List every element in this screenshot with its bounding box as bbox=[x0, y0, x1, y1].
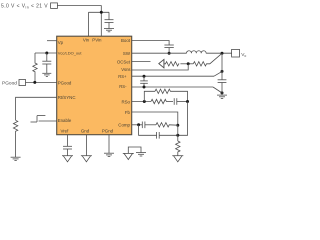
svg-text:Enable: Enable bbox=[58, 118, 72, 123]
Vo label bbox=[241, 52, 246, 58]
svg-text:Gnd: Gnd bbox=[81, 129, 90, 134]
node PGood junction bbox=[33, 81, 36, 84]
wire RS+ diagonal bbox=[214, 72, 221, 76]
node Vo junction bbox=[221, 52, 224, 55]
node Vcc junction bbox=[45, 52, 48, 55]
svg-text:Vcc/LDO_out: Vcc/LDO_out bbox=[58, 51, 83, 56]
wire Boot bbox=[132, 41, 169, 46]
ground PGnd bbox=[104, 152, 114, 154]
op-amp U1 regulator IC body bbox=[57, 36, 132, 135]
ground Fb arrow bbox=[172, 155, 183, 157]
wire L to Vo bbox=[206, 52, 232, 54]
node RSo junction bbox=[143, 100, 146, 103]
svg-text:PGood: PGood bbox=[58, 80, 72, 85]
wire Fb node down bbox=[177, 125, 179, 141]
node RS- junction bbox=[143, 86, 146, 89]
wire comp to node bbox=[169, 124, 178, 126]
capacitor Boot bbox=[164, 44, 173, 46]
resistor Rt bbox=[13, 120, 17, 157]
svg-text:SW: SW bbox=[123, 51, 131, 56]
ground Vref arrow bbox=[62, 155, 73, 157]
ground tie arrow bbox=[123, 152, 134, 154]
input terminal bbox=[51, 3, 58, 8]
PGood external label bbox=[2, 80, 17, 86]
switch Enable bbox=[31, 121, 38, 123]
wire to series cap bbox=[166, 101, 173, 103]
wire Vin pin bbox=[88, 12, 90, 36]
node rail RS+ bbox=[221, 70, 224, 73]
wire Vsns bbox=[132, 64, 189, 70]
wire diagonal to Vo node bbox=[206, 54, 221, 64]
svg-text:Vref: Vref bbox=[60, 129, 69, 134]
node rail RSo bbox=[186, 100, 189, 103]
resistor RSo series bbox=[151, 99, 166, 103]
svg-text:5.0 V < Vin < 21 V: 5.0 V < Vin < 21 V bbox=[1, 3, 48, 9]
wire Vp stub bbox=[47, 40, 57, 42]
wire ground tie bracket bbox=[128, 147, 141, 153]
svg-text:PGood: PGood bbox=[2, 80, 17, 86]
resistor RSo loop bbox=[155, 89, 170, 93]
wire loop to rail bbox=[170, 91, 187, 101]
svg-text:Fb: Fb bbox=[125, 110, 131, 115]
node Fb-comp junction bbox=[176, 124, 179, 127]
node Boot-SW junction bbox=[168, 52, 171, 55]
ground Vcc cap bbox=[42, 72, 51, 74]
resistor Comp series bbox=[156, 123, 169, 127]
capacitor Comp series bbox=[141, 122, 143, 129]
svg-text:Vsns: Vsns bbox=[121, 67, 130, 72]
svg-text:RS+: RS+ bbox=[118, 74, 127, 79]
capacitor RS filter bbox=[143, 76, 145, 81]
resistor PGood pull-up bbox=[33, 53, 37, 82]
svg-text:PVin: PVin bbox=[92, 38, 102, 43]
terminal Vo bbox=[232, 49, 240, 57]
capacitor Vref bbox=[63, 145, 72, 147]
svg-text:Rt/SYNC: Rt/SYNC bbox=[58, 95, 76, 100]
resistor OCSet R1 bbox=[164, 62, 179, 66]
ground Rt bbox=[11, 156, 21, 158]
wire SW bbox=[132, 52, 187, 54]
svg-text:RSo: RSo bbox=[121, 99, 130, 104]
node RS+ junction bbox=[143, 75, 146, 78]
node Comp junction bbox=[137, 123, 140, 126]
wire Gnd pin bbox=[85, 135, 87, 156]
wire Comp branch B down bbox=[139, 125, 157, 136]
capacitor Cin bbox=[108, 12, 110, 19]
wire RS+ bbox=[132, 75, 214, 77]
wire RS- diagonal bbox=[213, 87, 221, 93]
node comp bottom bbox=[176, 134, 179, 137]
node rail RS- bbox=[221, 91, 224, 94]
wire input top bbox=[57, 6, 101, 13]
svg-text:RS-: RS- bbox=[119, 84, 127, 89]
capacitor RSo series bbox=[173, 98, 175, 105]
wire PGood bbox=[26, 81, 57, 83]
ground input cap bbox=[104, 28, 114, 30]
inductor L1 bbox=[186, 51, 206, 53]
node OCSet mid bbox=[187, 62, 190, 65]
ground Gnd arrow bbox=[81, 155, 92, 157]
input label 5.0V<Vin<21V bbox=[1, 3, 48, 9]
wire Vcc/LDO_out bbox=[35, 52, 57, 54]
wire RSo loop up bbox=[144, 91, 155, 101]
wire PGnd pin bbox=[108, 135, 110, 153]
wire to mid node bbox=[180, 63, 193, 65]
capacitor Vcc bypass bbox=[46, 53, 48, 61]
wire Comp bbox=[132, 124, 143, 126]
arrow OCSet sense bbox=[159, 59, 164, 67]
wire Fb bbox=[132, 112, 178, 125]
svg-text:PGnd: PGnd bbox=[102, 129, 114, 134]
wire Vo rail bbox=[221, 53, 223, 80]
ground Cout bbox=[217, 94, 227, 96]
wire PVin pin bbox=[100, 12, 102, 36]
wire RSo bbox=[132, 101, 151, 103]
capacitor Comp B bbox=[156, 132, 158, 139]
wire OCSet stub bbox=[132, 61, 151, 63]
wire RS- bbox=[132, 86, 213, 88]
ground tie earth bbox=[136, 152, 146, 154]
wire Vref pin bbox=[67, 135, 69, 147]
node input junction bbox=[100, 11, 103, 14]
svg-text:OCSet: OCSet bbox=[117, 59, 131, 64]
wire Enable bbox=[39, 120, 57, 122]
svg-text:Comp: Comp bbox=[118, 123, 130, 128]
svg-text:Vp: Vp bbox=[58, 40, 64, 45]
wire rail down bbox=[178, 102, 188, 136]
PGood terminal bbox=[19, 80, 26, 86]
wire Rt/SYNC bbox=[16, 97, 57, 120]
resistor Fb divider bbox=[176, 141, 180, 156]
resistor OCSet R2 bbox=[193, 62, 206, 66]
wire Vin branch bbox=[89, 11, 110, 13]
capacitor Cout bbox=[218, 79, 227, 81]
svg-text:Vin: Vin bbox=[83, 38, 90, 43]
svg-text:Boot: Boot bbox=[121, 38, 131, 43]
